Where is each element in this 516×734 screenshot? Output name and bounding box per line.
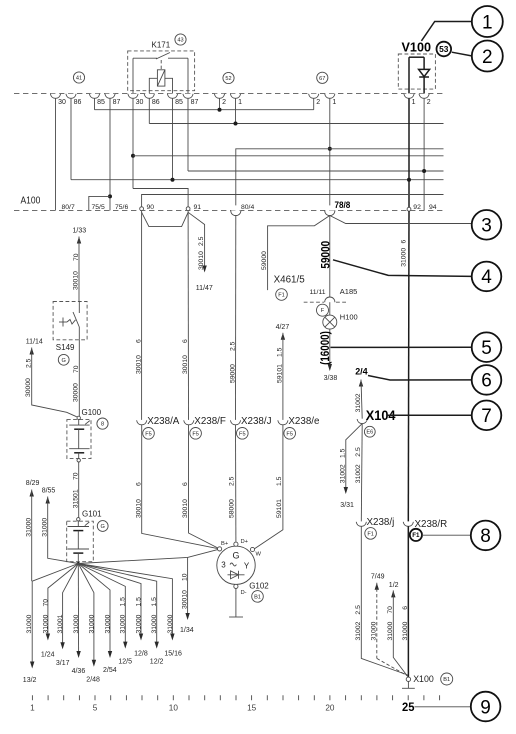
svg-text:1: 1 <box>30 704 35 713</box>
wire 1/34 <box>187 557 189 618</box>
connector X100 <box>406 677 410 681</box>
connector X238/R <box>403 522 413 527</box>
svg-text:31000: 31000 <box>135 614 142 633</box>
bus y123.5 <box>149 123 443 125</box>
svg-text:2.5: 2.5 <box>198 236 205 246</box>
terminal 86 at x=149.3 <box>144 94 154 99</box>
terminal 2 at x=313.7 <box>309 94 319 99</box>
terminal 91 <box>186 207 190 211</box>
switch S149 contact <box>78 302 80 314</box>
wire into H100 <box>329 302 331 315</box>
relay K171 coil <box>157 70 165 86</box>
terminal 92 <box>407 207 411 211</box>
bus y148.8 to terminal 80/4 <box>236 149 444 206</box>
svg-text:41: 41 <box>76 76 82 82</box>
svg-text:W: W <box>256 551 262 557</box>
svg-text:10: 10 <box>169 704 179 713</box>
switch S149 actuator <box>62 318 64 327</box>
wire 1 67-group to 78/8 <box>329 98 331 205</box>
svg-text:5: 5 <box>481 338 492 359</box>
callout leader 7 <box>387 414 472 416</box>
svg-text:78/8: 78/8 <box>335 200 351 211</box>
wire 30 to 80/7 <box>55 98 57 210</box>
bus y179.7 <box>71 179 444 181</box>
connector X104 (bold) <box>357 419 367 424</box>
svg-text:F: F <box>321 308 325 314</box>
svg-text:1.5: 1.5 <box>151 597 158 607</box>
svg-text:85: 85 <box>175 99 183 106</box>
svg-text:8: 8 <box>101 422 104 428</box>
grid circle G of G101 <box>97 521 108 532</box>
svg-text:S149: S149 <box>56 343 75 352</box>
svg-text:31002: 31002 <box>355 621 362 640</box>
wire X238/e to W <box>255 425 283 549</box>
svg-text:2: 2 <box>222 99 226 106</box>
svg-text:1.5: 1.5 <box>120 597 127 607</box>
svg-text:1.5: 1.5 <box>276 476 283 486</box>
grid circle F1 of X238/j <box>365 528 377 540</box>
svg-text:30010: 30010 <box>198 251 205 270</box>
svg-text:4/36: 4/36 <box>72 668 86 675</box>
svg-text:25: 25 <box>402 702 415 714</box>
svg-text:X461/5: X461/5 <box>274 275 306 286</box>
grid circle 8 of G100 <box>97 418 108 429</box>
svg-text:1.5: 1.5 <box>135 597 142 607</box>
svg-text:1: 1 <box>332 99 336 106</box>
ground symbol G102 <box>229 616 243 618</box>
terminal 2 at x=219.5 <box>214 94 224 99</box>
svg-text:2.5: 2.5 <box>355 447 362 457</box>
svg-text:2.5: 2.5 <box>229 476 236 486</box>
svg-text:1/24: 1/24 <box>41 651 55 658</box>
relay K171 contact 87 wire <box>187 58 189 93</box>
terminal 87 at x=110 <box>105 94 115 99</box>
svg-text:70: 70 <box>42 599 49 607</box>
svg-text:31002: 31002 <box>355 393 362 412</box>
svg-text:7/49: 7/49 <box>371 574 385 581</box>
switch S149 dashed outline <box>53 302 87 340</box>
svg-text:31002: 31002 <box>339 464 346 483</box>
wire 85-2 vertical <box>172 98 174 179</box>
svg-text:6: 6 <box>402 606 409 610</box>
svg-text:30010: 30010 <box>135 355 142 374</box>
svg-text:86: 86 <box>74 99 82 106</box>
svg-text:90: 90 <box>147 204 155 211</box>
svg-text:11/47: 11/47 <box>196 285 213 292</box>
ground wire 15/16 <box>78 564 172 639</box>
svg-text:6: 6 <box>481 371 492 392</box>
svg-text:X238/R: X238/R <box>415 519 448 530</box>
terminal 85 at x=94.5 <box>89 94 99 99</box>
grid circle E6 of X104 <box>364 426 375 437</box>
svg-text:2/48: 2/48 <box>86 677 100 684</box>
grid circle 67 <box>317 72 328 83</box>
svg-text:70: 70 <box>73 472 80 480</box>
svg-text:1: 1 <box>412 99 416 106</box>
svg-text:E6: E6 <box>366 430 373 436</box>
svg-text:H100: H100 <box>340 313 358 322</box>
svg-text:52: 52 <box>225 76 231 82</box>
callout leader 8 <box>422 534 471 536</box>
svg-text:70: 70 <box>73 365 80 373</box>
svg-text:6: 6 <box>401 240 408 244</box>
connector X238/J <box>230 420 240 425</box>
grid circle F1 of X238/R (bold) <box>410 529 422 541</box>
svg-text:2.5: 2.5 <box>26 358 33 368</box>
bus y193.9 to terminal 90 <box>142 195 444 209</box>
svg-text:6: 6 <box>182 339 189 343</box>
wire 2 K171-group vertical <box>219 98 221 109</box>
svg-text:31000: 31000 <box>401 248 408 267</box>
connector X238/A <box>137 420 147 425</box>
wire X104 to X238/j <box>360 424 363 522</box>
relay K171 contact rail <box>133 57 157 59</box>
bus y171 <box>188 170 444 172</box>
svg-text:7: 7 <box>481 406 492 427</box>
svg-text:15/16: 15/16 <box>164 651 182 658</box>
svg-text:31002: 31002 <box>355 464 362 483</box>
diode V100 symbol <box>419 69 430 76</box>
terminal 30 at x=133 <box>128 94 138 99</box>
ground wire 1/24 <box>48 564 78 639</box>
wire 91 to X238/F <box>187 211 189 420</box>
svg-text:2/4: 2/4 <box>355 367 368 378</box>
svg-text:3: 3 <box>481 216 492 237</box>
svg-text:(16000): (16000) <box>320 331 332 365</box>
wire H100 to 3/38 <box>329 329 331 369</box>
svg-text:K171: K171 <box>152 41 171 50</box>
svg-text:5: 5 <box>93 704 98 713</box>
svg-text:G: G <box>101 524 105 530</box>
svg-text:31000: 31000 <box>120 614 127 633</box>
wire V100-2 to terminal 94 <box>423 98 425 210</box>
ground wire 3/17 <box>63 564 79 648</box>
battery G100 polarity tick <box>85 421 90 425</box>
battery G100 dashed outline <box>67 420 91 459</box>
terminal 78/8 (bold) <box>325 210 335 215</box>
grid circle B1 of X100 <box>441 673 453 685</box>
wire 87-2 vertical <box>187 98 189 171</box>
svg-text:43: 43 <box>177 38 183 44</box>
svg-text:75/5: 75/5 <box>92 204 105 211</box>
svg-text:G100: G100 <box>82 408 102 417</box>
svg-text:2: 2 <box>482 47 493 68</box>
callout leader 6 <box>368 376 472 381</box>
wire 92 to X238/R <box>407 211 410 521</box>
svg-text:30000: 30000 <box>25 378 32 397</box>
wire 1 K171-group vertical <box>235 98 237 123</box>
svg-text:2.5: 2.5 <box>355 605 362 615</box>
svg-text:20: 20 <box>325 704 335 713</box>
svg-text:X238/J: X238/J <box>241 416 272 427</box>
wire 85-1 vertical <box>94 98 96 109</box>
svg-text:4/27: 4/27 <box>276 324 290 331</box>
ground wire 2/54 <box>78 564 110 657</box>
svg-text:31000: 31000 <box>42 614 49 633</box>
svg-text:31000: 31000 <box>26 614 33 633</box>
battery G100 cells <box>78 420 80 426</box>
diode V100 pin 2 wire <box>423 57 425 69</box>
wire X238/A to B+ <box>142 425 220 549</box>
svg-text:1: 1 <box>238 99 242 106</box>
svg-text:30010: 30010 <box>182 355 189 374</box>
svg-text:G101: G101 <box>82 510 102 519</box>
jumper 90-91 <box>142 212 189 226</box>
bus y155.8 <box>133 155 444 157</box>
wire 78/8 down <box>329 215 331 297</box>
grid circle F1 of X461/5 <box>276 289 288 301</box>
diode V100 pin 1 wire <box>408 57 410 93</box>
svg-text:1/2: 1/2 <box>389 582 399 589</box>
svg-text:V100: V100 <box>402 40 432 55</box>
svg-text:94: 94 <box>429 204 437 211</box>
terminal 87 at x=188 <box>183 94 193 99</box>
battery G100 bottom terminal <box>77 459 80 462</box>
ground wire 2/48 <box>78 564 94 665</box>
svg-text:91: 91 <box>194 204 202 211</box>
A100 control module boundary line <box>14 209 444 211</box>
svg-text:80/4: 80/4 <box>241 204 254 211</box>
terminal D- <box>234 584 238 588</box>
svg-text:8/55: 8/55 <box>42 488 56 495</box>
svg-text:A185: A185 <box>340 287 358 296</box>
junction dot wire1 on bus123 <box>234 122 238 126</box>
svg-text:30010: 30010 <box>181 590 188 609</box>
wire X238/J to D+ <box>235 425 237 542</box>
svg-text:30: 30 <box>136 99 144 106</box>
svg-text:3/38: 3/38 <box>324 375 338 382</box>
svg-text:3/31: 3/31 <box>340 502 354 509</box>
svg-text:59000: 59000 <box>261 251 268 270</box>
svg-text:13/2: 13/2 <box>23 677 37 684</box>
svg-text:3/17: 3/17 <box>56 660 70 667</box>
svg-text:X238/e: X238/e <box>288 416 320 427</box>
wire 80/4 to X238/J <box>235 215 237 420</box>
svg-text:8/29: 8/29 <box>26 480 40 487</box>
svg-text:59000: 59000 <box>320 241 332 269</box>
terminal 86 at x=71 <box>66 94 76 99</box>
svg-text:70: 70 <box>73 253 80 261</box>
callout leader 4 <box>333 260 472 277</box>
svg-text:75/6: 75/6 <box>115 204 128 211</box>
terminal B+ <box>218 547 222 551</box>
relay K171 coil wire 85 <box>165 78 173 93</box>
callout circle 1 <box>472 6 503 37</box>
svg-text:B+: B+ <box>221 541 229 547</box>
svg-text:2: 2 <box>427 99 431 106</box>
svg-text:X238/F: X238/F <box>194 416 226 427</box>
ground wire 12/8 <box>78 564 141 639</box>
svg-text:9: 9 <box>480 697 491 718</box>
svg-text:59101: 59101 <box>276 499 283 518</box>
callout circle 6 <box>472 365 502 395</box>
ground wire 12/5 <box>78 564 125 647</box>
battery G101 cells <box>77 521 79 526</box>
svg-text:6: 6 <box>135 482 142 486</box>
svg-text:87: 87 <box>191 99 199 106</box>
wire 2 67-group vertical <box>313 98 315 109</box>
junction dot wire2 on bus109 <box>218 108 222 112</box>
connector X238/e <box>278 420 288 425</box>
svg-text:12/8: 12/8 <box>134 651 148 658</box>
svg-text:31000: 31000 <box>167 614 174 633</box>
svg-text:2.5: 2.5 <box>229 341 236 351</box>
svg-text:80/7: 80/7 <box>62 204 75 211</box>
svg-text:31000: 31000 <box>151 614 158 633</box>
svg-text:6: 6 <box>182 482 189 486</box>
wire 87-1 to 75/6 <box>109 98 111 210</box>
battery G101 dashed outline <box>67 521 94 562</box>
battery G100 terminal <box>77 416 80 419</box>
callout leader 5 <box>331 346 472 348</box>
wire G100 to G101 <box>78 462 80 518</box>
junction dot V100-1 on bus179 <box>407 178 411 182</box>
diode V100 dashed outline <box>398 54 435 89</box>
svg-text:G: G <box>62 358 66 364</box>
ground wire 12/2 <box>78 564 156 647</box>
svg-text:31000: 31000 <box>88 614 95 633</box>
svg-text:92: 92 <box>413 204 421 211</box>
connector X238/j <box>356 522 366 527</box>
svg-text:31000: 31000 <box>402 621 409 640</box>
callout leader 1 <box>421 22 471 41</box>
grid circle 41 <box>73 72 84 83</box>
svg-text:G102: G102 <box>249 581 269 590</box>
svg-text:31501: 31501 <box>73 489 80 508</box>
grid circle 53 (bold) <box>437 42 452 57</box>
svg-text:B1: B1 <box>254 594 261 600</box>
svg-text:F5: F5 <box>239 431 246 437</box>
relay K171 contact 30 wire <box>132 58 134 93</box>
svg-text:12/2: 12/2 <box>150 658 164 665</box>
svg-text:F5: F5 <box>286 431 293 437</box>
svg-text:D-: D- <box>241 590 247 596</box>
svg-text:31000: 31000 <box>73 614 80 633</box>
svg-text:67: 67 <box>319 76 325 82</box>
wire V100-1 to terminal 92 <box>408 98 410 207</box>
svg-text:31001: 31001 <box>57 614 64 633</box>
svg-text:D+: D+ <box>241 539 249 545</box>
hub link to 13/2 wire <box>32 564 78 582</box>
callout leader 2 <box>452 52 472 56</box>
svg-text:53: 53 <box>439 44 449 54</box>
callout leader 3 <box>330 216 471 224</box>
wire 13/2 arrow <box>31 581 33 666</box>
svg-text:B1: B1 <box>443 677 450 683</box>
svg-text:X100: X100 <box>413 674 434 684</box>
ground symbol X100 <box>407 682 409 689</box>
connector X238/F <box>184 420 194 425</box>
alternator G102 body <box>217 546 255 584</box>
svg-text:86: 86 <box>152 99 160 106</box>
wire X238/F to B+ <box>189 425 220 549</box>
svg-text:11/14: 11/14 <box>26 338 43 345</box>
callout leader 9 <box>415 706 471 708</box>
svg-text:A100: A100 <box>21 195 41 206</box>
callout circle 3 <box>472 210 502 240</box>
ground hub node <box>77 562 80 565</box>
svg-text:3: 3 <box>221 561 226 570</box>
terminal 90 <box>140 207 144 211</box>
terminal 80/4 <box>231 210 241 215</box>
wire 30-2 vertical <box>132 98 134 188</box>
svg-text:31000: 31000 <box>104 614 111 633</box>
svg-text:30000: 30000 <box>73 383 80 402</box>
wire S149 to G100 <box>78 340 80 416</box>
svg-text:31000: 31000 <box>370 621 377 640</box>
junction dot V100-2 on bus171 <box>422 169 426 173</box>
grid circle 43 <box>175 34 186 45</box>
wire D- to ground <box>235 589 237 617</box>
svg-text:F5: F5 <box>192 431 199 437</box>
svg-text:11/11: 11/11 <box>310 289 326 296</box>
svg-text:F1: F1 <box>367 531 374 537</box>
svg-text:31000: 31000 <box>26 518 33 537</box>
terminal 1 at x=329.8 <box>325 94 335 99</box>
terminal D+ <box>234 542 238 546</box>
svg-text:31000: 31000 <box>387 621 394 640</box>
svg-text:30010: 30010 <box>135 499 142 518</box>
battery G101 terminal <box>77 518 80 521</box>
svg-text:30010: 30010 <box>73 271 80 290</box>
ground wire 4/36 <box>77 564 79 657</box>
bus y188.5 to terminal 91 <box>133 189 188 209</box>
svg-text:30010: 30010 <box>182 499 189 518</box>
junction dot 30-2 bus155 <box>131 154 135 158</box>
svg-text:4: 4 <box>481 267 492 288</box>
svg-text:12/5: 12/5 <box>118 658 132 665</box>
callout circle 8 <box>471 521 501 551</box>
junction dot 87-1/75-5 link <box>108 194 112 198</box>
svg-text:87: 87 <box>113 99 121 106</box>
grid circle 52 <box>223 72 234 83</box>
indicator lamp H100 <box>323 315 337 329</box>
svg-text:70: 70 <box>387 606 394 614</box>
svg-text:10: 10 <box>181 573 188 581</box>
svg-text:X238/j: X238/j <box>367 517 395 528</box>
callout circle 5 <box>472 332 502 362</box>
svg-text:F5: F5 <box>145 431 152 437</box>
svg-text:30: 30 <box>58 99 66 106</box>
terminal W <box>250 547 254 551</box>
terminal 30 at x=55.5 <box>50 94 60 99</box>
wire 90 to X238/A <box>141 211 143 420</box>
svg-text:59101: 59101 <box>277 364 284 383</box>
wire X238/R to X100 <box>407 526 409 677</box>
wire 86-1 vertical <box>70 98 72 179</box>
branch 11/47 <box>188 212 205 270</box>
callout circle 4 <box>472 262 502 292</box>
svg-text:31000: 31000 <box>42 518 49 537</box>
terminal 1 at x=235.5 <box>230 94 240 99</box>
wire X238/j to X100 <box>361 526 407 675</box>
svg-text:F1: F1 <box>412 532 420 539</box>
svg-text:2: 2 <box>316 99 320 106</box>
svg-text:59000: 59000 <box>229 364 236 383</box>
grid circle G of S149 <box>58 354 69 365</box>
relay K171 switch blade <box>156 53 170 60</box>
svg-text:15: 15 <box>247 704 257 713</box>
coordinate ruler ticks <box>32 695 439 700</box>
terminal 1 at x=409 <box>404 94 414 99</box>
svg-text:1/33: 1/33 <box>73 227 87 234</box>
svg-text:1/34: 1/34 <box>180 627 194 634</box>
junction dot wire1-67 on bus148 <box>328 147 332 151</box>
link to 75/5 <box>89 196 110 210</box>
svg-text:1.5: 1.5 <box>277 347 284 357</box>
svg-text:1.5: 1.5 <box>339 448 346 458</box>
grid circle F of H100 <box>317 304 329 316</box>
